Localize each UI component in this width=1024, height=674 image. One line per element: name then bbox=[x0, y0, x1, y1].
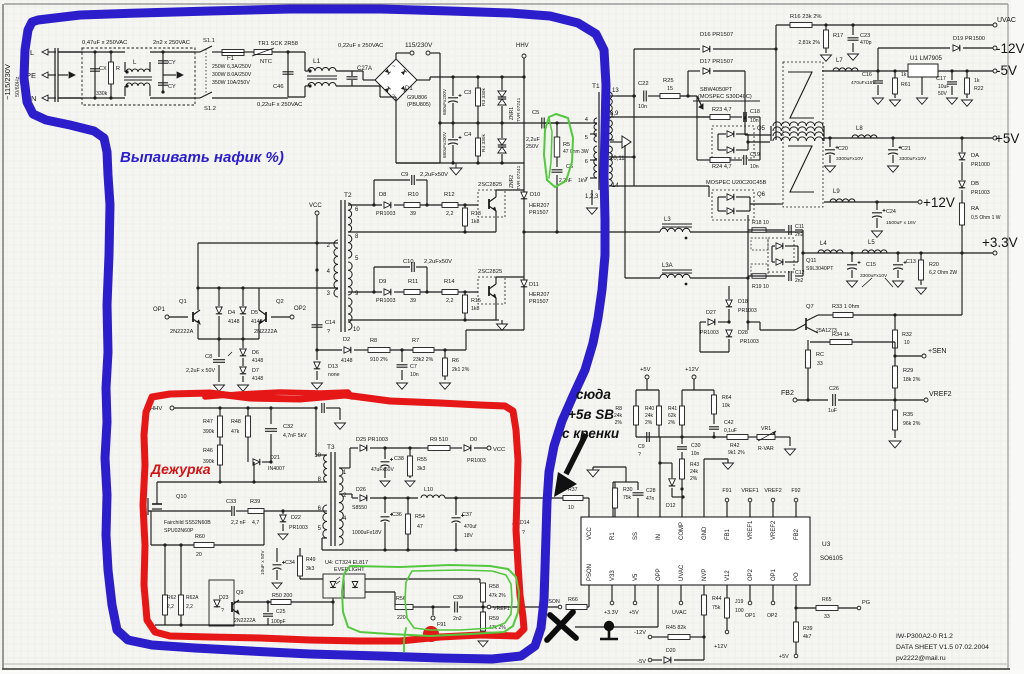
svg-text:R47: R47 bbox=[203, 419, 213, 425]
svg-text:D27: D27 bbox=[706, 310, 716, 316]
svg-text:100: 100 bbox=[735, 608, 744, 614]
svg-text:R49: R49 bbox=[306, 557, 316, 563]
svg-text:680uFx200V: 680uFx200V bbox=[442, 131, 447, 158]
svg-text:D0: D0 bbox=[470, 437, 477, 443]
svg-text:UVAC: UVAC bbox=[672, 610, 687, 616]
svg-text:20: 20 bbox=[196, 552, 202, 558]
svg-text:R10: R10 bbox=[408, 192, 419, 198]
svg-text:+12V: +12V bbox=[714, 644, 727, 650]
svg-text:Q5: Q5 bbox=[757, 126, 766, 132]
svg-text:R13: R13 bbox=[471, 211, 481, 217]
svg-text:OP2: OP2 bbox=[767, 613, 777, 619]
svg-text:C24: C24 bbox=[886, 209, 896, 215]
svg-text:6: 6 bbox=[585, 159, 588, 165]
svg-text:D6: D6 bbox=[252, 350, 259, 356]
svg-text:2SC2825: 2SC2825 bbox=[478, 269, 502, 275]
svg-text:75k: 75k bbox=[623, 495, 632, 501]
svg-text:L10: L10 bbox=[424, 487, 433, 493]
svg-text:0,5 Ohm 1 W: 0,5 Ohm 1 W bbox=[971, 215, 1001, 221]
svg-text:R5: R5 bbox=[563, 142, 570, 148]
svg-text:+3.3V: +3.3V bbox=[604, 610, 619, 616]
svg-text:D12: D12 bbox=[666, 503, 676, 509]
svg-text:D21: D21 bbox=[270, 455, 280, 461]
svg-text:R42: R42 bbox=[730, 443, 740, 449]
svg-text:F91: F91 bbox=[437, 622, 446, 628]
svg-text:FB2: FB2 bbox=[781, 390, 794, 397]
svg-text:D23: D23 bbox=[219, 595, 229, 601]
svg-text:D9: D9 bbox=[379, 279, 386, 285]
svg-text:RA: RA bbox=[971, 206, 979, 212]
svg-text:1k: 1k bbox=[974, 78, 980, 84]
svg-text:R44: R44 bbox=[712, 596, 722, 602]
svg-text:C9: C9 bbox=[638, 444, 645, 450]
svg-text:+5V: +5V bbox=[779, 654, 789, 660]
svg-text:910 2%: 910 2% bbox=[370, 357, 388, 363]
svg-text:4148: 4148 bbox=[228, 319, 240, 325]
svg-text:U1 LM7905: U1 LM7905 bbox=[910, 55, 943, 62]
svg-text:HHV: HHV bbox=[516, 43, 529, 49]
svg-text:250W 6,3A/250V: 250W 6,3A/250V bbox=[212, 64, 252, 70]
svg-text:L9: L9 bbox=[833, 189, 840, 195]
svg-text:R41: R41 bbox=[668, 406, 677, 412]
svg-text:T2: T2 bbox=[344, 192, 352, 199]
svg-text:D4: D4 bbox=[228, 310, 235, 316]
svg-text:330k: 330k bbox=[96, 91, 108, 97]
svg-text:C14: C14 bbox=[325, 320, 335, 326]
svg-text:D19 PR1500: D19 PR1500 bbox=[953, 36, 985, 42]
svg-text:R9 510: R9 510 bbox=[430, 437, 448, 443]
svg-text:Q9: Q9 bbox=[236, 590, 243, 596]
svg-text:10n: 10n bbox=[638, 104, 647, 110]
svg-text:10uF x 50V: 10uF x 50V bbox=[260, 550, 266, 575]
svg-text:R60: R60 bbox=[195, 534, 205, 540]
svg-text:2,2uF x 50V: 2,2uF x 50V bbox=[186, 368, 215, 374]
svg-text:13: 13 bbox=[612, 88, 619, 94]
svg-text:R3 330k: R3 330k bbox=[481, 88, 487, 106]
svg-text:V33: V33 bbox=[610, 570, 616, 581]
svg-text:+5V: +5V bbox=[640, 367, 651, 373]
svg-text:R16 23k 2%: R16 23k 2% bbox=[790, 14, 822, 20]
svg-text:?: ? bbox=[327, 329, 330, 335]
svg-text:0,22uF x 250VAC: 0,22uF x 250VAC bbox=[338, 43, 383, 49]
svg-text:R29: R29 bbox=[903, 368, 913, 374]
svg-text:10n: 10n bbox=[750, 164, 759, 170]
svg-text:S1.1: S1.1 bbox=[203, 38, 215, 44]
svg-text:PO: PO bbox=[794, 572, 800, 581]
svg-text:2,2uFx50V: 2,2uFx50V bbox=[424, 259, 452, 265]
svg-text:none: none bbox=[328, 372, 340, 378]
svg-text:U4: CT324 EL817: U4: CT324 EL817 bbox=[325, 560, 368, 566]
svg-text:SBW4050PT: SBW4050PT bbox=[700, 87, 733, 93]
svg-text:C18: C18 bbox=[750, 109, 760, 115]
svg-text:VREF2: VREF2 bbox=[771, 520, 777, 540]
svg-text:SPU02N60P: SPU02N60P bbox=[164, 528, 194, 534]
svg-text:33: 33 bbox=[817, 361, 823, 367]
svg-text:PR1003: PR1003 bbox=[467, 458, 486, 464]
svg-text:DA: DA bbox=[971, 153, 979, 159]
svg-text:L8: L8 bbox=[856, 126, 863, 132]
svg-text:F91: F91 bbox=[722, 488, 731, 494]
svg-text:R25: R25 bbox=[663, 78, 674, 84]
svg-text:C16: C16 bbox=[862, 72, 872, 78]
svg-text:CX: CX bbox=[99, 66, 107, 72]
svg-text:24k: 24k bbox=[645, 413, 654, 419]
svg-text:R8: R8 bbox=[370, 338, 377, 344]
svg-text:R6: R6 bbox=[452, 358, 459, 364]
svg-text:4,7: 4,7 bbox=[252, 520, 259, 526]
svg-text:R32: R32 bbox=[902, 332, 912, 338]
svg-text:D16 PR1507: D16 PR1507 bbox=[700, 32, 733, 38]
svg-text:U3: U3 bbox=[822, 541, 831, 548]
svg-text:(PBU805): (PBU805) bbox=[407, 102, 431, 108]
svg-text:2%: 2% bbox=[645, 420, 653, 426]
svg-text:NTC: NTC bbox=[260, 59, 272, 65]
svg-text:R1: R1 bbox=[610, 532, 616, 540]
svg-text:VCC: VCC bbox=[493, 447, 505, 453]
svg-text:C23: C23 bbox=[860, 33, 870, 39]
svg-text:S9L3040PT: S9L3040PT bbox=[806, 266, 834, 272]
svg-text:75k: 75k bbox=[712, 605, 721, 611]
svg-text:1500uF x 16V: 1500uF x 16V bbox=[886, 220, 917, 226]
svg-text:2,2: 2,2 bbox=[446, 211, 454, 217]
svg-text:2%: 2% bbox=[668, 420, 676, 426]
svg-text:R65: R65 bbox=[822, 597, 832, 603]
svg-text:+SEN: +SEN bbox=[928, 348, 946, 355]
svg-text:470uf: 470uf bbox=[464, 524, 477, 530]
svg-text:23k2 2%: 23k2 2% bbox=[413, 357, 434, 363]
svg-text:C33: C33 bbox=[226, 499, 236, 505]
svg-text:R39: R39 bbox=[250, 499, 260, 505]
svg-text:6,2 Ohm 2W: 6,2 Ohm 2W bbox=[929, 270, 957, 276]
svg-text:?: ? bbox=[221, 608, 224, 614]
svg-text:C30: C30 bbox=[691, 443, 701, 449]
svg-text:OP2: OP2 bbox=[294, 306, 307, 312]
svg-text:R40: R40 bbox=[645, 406, 654, 412]
svg-text:Выпаивать нафик %): Выпаивать нафик %) bbox=[120, 149, 284, 166]
svg-text:L3: L3 bbox=[664, 217, 671, 223]
svg-text:C4: C4 bbox=[464, 132, 472, 138]
svg-text:F1: F1 bbox=[227, 56, 235, 62]
svg-text:24k: 24k bbox=[614, 413, 623, 419]
svg-text:0,47uF x 250VAC: 0,47uF x 250VAC bbox=[82, 40, 127, 46]
svg-text:D11: D11 bbox=[529, 282, 539, 288]
svg-text:100pF: 100pF bbox=[271, 619, 286, 625]
svg-text:C39: C39 bbox=[453, 595, 463, 601]
svg-text:+5V: +5V bbox=[995, 131, 1019, 146]
svg-text:1k8: 1k8 bbox=[471, 306, 479, 312]
svg-text:2,2: 2,2 bbox=[167, 604, 174, 610]
svg-text:PR1003: PR1003 bbox=[376, 298, 395, 304]
svg-text:D10: D10 bbox=[530, 192, 540, 198]
svg-text:(MOSPEC S30D40C): (MOSPEC S30D40C) bbox=[698, 94, 752, 100]
svg-text:R48: R48 bbox=[231, 419, 241, 425]
svg-text:R62A: R62A bbox=[186, 595, 199, 601]
svg-text:FB1: FB1 bbox=[725, 528, 731, 540]
svg-text:2,2: 2,2 bbox=[446, 298, 454, 304]
svg-text:R12: R12 bbox=[444, 192, 455, 198]
svg-text:~: ~ bbox=[392, 93, 396, 99]
svg-text:L5: L5 bbox=[868, 240, 875, 246]
svg-text:96k 2%: 96k 2% bbox=[903, 421, 921, 427]
svg-text:TVR 07241: TVR 07241 bbox=[516, 97, 522, 122]
svg-text:R46: R46 bbox=[203, 448, 213, 454]
svg-text:10n: 10n bbox=[410, 372, 419, 378]
svg-text:G9U806: G9U806 bbox=[407, 95, 427, 101]
svg-text:L1: L1 bbox=[313, 58, 321, 65]
svg-text:D18: D18 bbox=[738, 299, 748, 305]
svg-text:R4 330k: R4 330k bbox=[481, 134, 487, 152]
svg-text:47k 2%: 47k 2% bbox=[489, 593, 506, 599]
svg-text:R11: R11 bbox=[408, 279, 418, 285]
svg-text:10: 10 bbox=[353, 327, 360, 333]
svg-text:C28: C28 bbox=[646, 488, 656, 494]
svg-text:C26: C26 bbox=[829, 386, 839, 392]
svg-text:HER207: HER207 bbox=[529, 292, 549, 298]
svg-text:?: ? bbox=[638, 452, 641, 458]
svg-text:OP1: OP1 bbox=[771, 568, 777, 581]
svg-text:4,7nF 5kV: 4,7nF 5kV bbox=[283, 433, 307, 439]
svg-text:24k: 24k bbox=[690, 469, 699, 475]
svg-text:R61: R61 bbox=[901, 82, 911, 88]
svg-text:FB2: FB2 bbox=[794, 528, 800, 540]
svg-text:PG: PG bbox=[862, 600, 870, 606]
svg-text:+12V: +12V bbox=[685, 367, 699, 373]
svg-text:PR1003: PR1003 bbox=[740, 339, 759, 345]
svg-text:C21: C21 bbox=[901, 146, 911, 152]
svg-text:1000uFx18V: 1000uFx18V bbox=[352, 530, 382, 536]
svg-text:D25 PR1003: D25 PR1003 bbox=[356, 437, 388, 443]
svg-text:2n2: 2n2 bbox=[795, 278, 804, 284]
svg-text:C17: C17 bbox=[936, 76, 946, 82]
svg-text:T1: T1 bbox=[592, 83, 600, 90]
svg-text:V12: V12 bbox=[725, 570, 731, 581]
svg-text:D2: D2 bbox=[343, 337, 350, 343]
svg-text:C9: C9 bbox=[401, 172, 408, 178]
svg-text:2n2: 2n2 bbox=[795, 232, 804, 238]
svg-text:39: 39 bbox=[410, 298, 416, 304]
svg-text:R22: R22 bbox=[974, 86, 984, 92]
svg-text:C32: C32 bbox=[283, 424, 293, 430]
svg-text:L4: L4 bbox=[820, 241, 827, 247]
svg-text:D17 PR1507: D17 PR1507 bbox=[700, 59, 733, 65]
svg-text:5: 5 bbox=[585, 135, 588, 141]
svg-text:2n2 x 250VAC: 2n2 x 250VAC bbox=[153, 40, 190, 46]
svg-text:S8550: S8550 bbox=[352, 505, 367, 511]
svg-text:SS: SS bbox=[633, 532, 639, 540]
svg-text:R15: R15 bbox=[471, 298, 481, 304]
svg-text:D8: D8 bbox=[379, 192, 386, 198]
svg-text:R59: R59 bbox=[489, 616, 499, 622]
svg-text:C8: C8 bbox=[205, 354, 212, 360]
svg-text:OPP: OPP bbox=[656, 568, 662, 581]
svg-text:R19 10: R19 10 bbox=[752, 284, 769, 290]
svg-text:2,81k 2%: 2,81k 2% bbox=[798, 40, 820, 46]
svg-text:V5: V5 bbox=[633, 573, 639, 581]
svg-text:~115/230V: ~115/230V bbox=[3, 64, 12, 100]
svg-text:HER207: HER207 bbox=[529, 203, 549, 209]
svg-text:C22: C22 bbox=[638, 81, 649, 87]
svg-text:R24 4,7: R24 4,7 bbox=[712, 164, 732, 170]
svg-text:300W 8.0A/250V: 300W 8.0A/250V bbox=[212, 72, 252, 78]
svg-text:R62: R62 bbox=[167, 595, 176, 601]
svg-text:2,2uF: 2,2uF bbox=[526, 137, 540, 143]
svg-text:C15: C15 bbox=[866, 262, 876, 268]
svg-text:47uFx50V: 47uFx50V bbox=[371, 467, 394, 473]
svg-text:C25: C25 bbox=[276, 609, 286, 615]
svg-text:D28: D28 bbox=[738, 330, 748, 336]
svg-text:TVR 07241: TVR 07241 bbox=[516, 165, 522, 190]
svg-text:PR1003: PR1003 bbox=[376, 211, 395, 217]
svg-text:C5: C5 bbox=[532, 110, 539, 116]
svg-text:PR1003: PR1003 bbox=[700, 330, 719, 336]
svg-text:10n: 10n bbox=[750, 118, 759, 124]
svg-text:Q2: Q2 bbox=[276, 299, 284, 305]
svg-text:OP2: OP2 bbox=[748, 568, 754, 581]
svg-text:R55: R55 bbox=[417, 457, 427, 463]
svg-text:10uF: 10uF bbox=[938, 84, 949, 90]
svg-text:3300uFx10V: 3300uFx10V bbox=[836, 156, 864, 162]
svg-text:PR1507: PR1507 bbox=[529, 210, 548, 216]
svg-text:UVAC: UVAC bbox=[679, 564, 685, 581]
svg-text:C3: C3 bbox=[464, 90, 471, 96]
svg-text:2k1 2%: 2k1 2% bbox=[452, 367, 470, 373]
svg-text:2,2: 2,2 bbox=[186, 604, 193, 610]
svg-text:C46: C46 bbox=[273, 84, 284, 90]
svg-text:2N2222A: 2N2222A bbox=[170, 329, 194, 335]
svg-text:+12V: +12V bbox=[923, 195, 955, 210]
svg-text:C37: C37 bbox=[462, 512, 472, 518]
svg-text:D22: D22 bbox=[291, 515, 301, 521]
svg-text:10: 10 bbox=[904, 340, 910, 346]
svg-text:F92: F92 bbox=[791, 488, 800, 494]
svg-text:10: 10 bbox=[314, 453, 321, 459]
svg-text:D13: D13 bbox=[328, 364, 338, 370]
svg-text:+5V: +5V bbox=[629, 610, 639, 616]
svg-text:Q1: Q1 bbox=[179, 299, 187, 305]
svg-text:R23 4,7: R23 4,7 bbox=[712, 107, 732, 113]
svg-text:8,9: 8,9 bbox=[610, 111, 619, 117]
svg-text:NVP: NVP bbox=[702, 569, 708, 581]
svg-text:с кренки: с кренки bbox=[562, 426, 620, 441]
svg-text:2,2 nF: 2,2 nF bbox=[231, 520, 246, 526]
svg-text:R66: R66 bbox=[568, 597, 578, 603]
svg-text:Q10: Q10 bbox=[176, 494, 187, 500]
svg-text:2n2: 2n2 bbox=[453, 616, 462, 622]
svg-text:R18 10: R18 10 bbox=[752, 220, 769, 226]
svg-text:D26: D26 bbox=[356, 487, 366, 493]
svg-text:R: R bbox=[116, 66, 120, 72]
svg-text:SO6105: SO6105 bbox=[820, 555, 843, 562]
svg-text:D14: D14 bbox=[520, 520, 530, 526]
svg-text:2N2222A: 2N2222A bbox=[254, 329, 278, 335]
svg-text:C36: C36 bbox=[392, 512, 402, 518]
svg-text:OP1: OP1 bbox=[745, 613, 755, 619]
svg-text:T3: T3 bbox=[327, 444, 335, 451]
svg-text:C42: C42 bbox=[724, 420, 734, 426]
svg-text:~: ~ bbox=[392, 64, 396, 70]
svg-text:D5: D5 bbox=[251, 310, 258, 316]
svg-text:10n: 10n bbox=[691, 451, 700, 457]
svg-text:4148: 4148 bbox=[252, 358, 263, 364]
svg-text:R-VAR: R-VAR bbox=[758, 446, 774, 452]
svg-text:0,1uF: 0,1uF bbox=[724, 428, 737, 434]
svg-text:R8: R8 bbox=[615, 406, 622, 412]
svg-text:C20: C20 bbox=[838, 146, 848, 152]
svg-text:C34: C34 bbox=[285, 560, 295, 566]
svg-text:47k: 47k bbox=[231, 429, 240, 435]
svg-text:Q7: Q7 bbox=[806, 304, 814, 310]
svg-text:L3A: L3A bbox=[662, 263, 673, 269]
svg-text:220: 220 bbox=[397, 615, 406, 621]
svg-text:D20: D20 bbox=[666, 648, 676, 654]
svg-text:47 0hm 3W: 47 0hm 3W bbox=[563, 149, 589, 155]
svg-text:680uFx200V: 680uFx200V bbox=[442, 88, 447, 115]
svg-text:-5V: -5V bbox=[637, 659, 646, 665]
svg-text:D7: D7 bbox=[252, 368, 259, 374]
svg-text:COMP: COMP bbox=[679, 522, 685, 540]
svg-text:VR1: VR1 bbox=[761, 426, 771, 432]
svg-text:C19: C19 bbox=[750, 152, 760, 158]
svg-text:IW-P300A2-0 R1.2: IW-P300A2-0 R1.2 bbox=[896, 633, 953, 640]
svg-text:Q11: Q11 bbox=[806, 258, 817, 264]
svg-text:IN: IN bbox=[656, 534, 662, 540]
svg-text:250V: 250V bbox=[526, 144, 539, 150]
svg-text:4148: 4148 bbox=[251, 319, 263, 325]
svg-text:DB: DB bbox=[971, 181, 979, 187]
svg-text:R54: R54 bbox=[415, 514, 425, 520]
svg-text:18V: 18V bbox=[464, 533, 474, 539]
svg-text:50V: 50V bbox=[938, 91, 948, 97]
svg-text:RC: RC bbox=[816, 352, 824, 358]
svg-text:Дежурка: Дежурка bbox=[150, 461, 211, 477]
svg-text:9k1 2%: 9k1 2% bbox=[728, 450, 745, 456]
svg-text:7: 7 bbox=[585, 177, 588, 183]
svg-text:3300uFx10V: 3300uFx10V bbox=[899, 156, 927, 162]
svg-text:HHV: HHV bbox=[150, 406, 162, 412]
svg-text:10: 10 bbox=[568, 505, 574, 511]
svg-text:pv2222@mail.ru: pv2222@mail.ru bbox=[896, 655, 946, 662]
svg-text:PR1507: PR1507 bbox=[529, 299, 548, 305]
svg-text:1k8: 1k8 bbox=[471, 219, 479, 225]
svg-text:3300uFx10V: 3300uFx10V bbox=[860, 273, 888, 279]
svg-text:C38: C38 bbox=[394, 456, 404, 462]
svg-text:2%: 2% bbox=[690, 476, 698, 482]
svg-text:2,2uFx50V: 2,2uFx50V bbox=[420, 172, 448, 178]
svg-text:-5V: -5V bbox=[996, 63, 1017, 78]
svg-text:R7: R7 bbox=[412, 338, 419, 344]
svg-text:L7: L7 bbox=[836, 58, 843, 64]
svg-text:VREF2: VREF2 bbox=[929, 391, 952, 398]
svg-text:UVAC: UVAC bbox=[997, 17, 1016, 24]
svg-text:18k 2%: 18k 2% bbox=[903, 377, 921, 383]
svg-text:DATA SHEET V1.5 07.02.2004: DATA SHEET V1.5 07.02.2004 bbox=[896, 644, 989, 651]
svg-text:VCC: VCC bbox=[587, 527, 593, 540]
svg-text:GND: GND bbox=[702, 526, 708, 540]
svg-text:R50 200: R50 200 bbox=[272, 593, 292, 599]
svg-text:Fairchild SS52N60B: Fairchild SS52N60B bbox=[164, 520, 211, 526]
svg-text:R20: R20 bbox=[929, 262, 939, 268]
svg-text:470p: 470p bbox=[860, 40, 872, 46]
svg-text:сюда: сюда bbox=[576, 387, 611, 402]
svg-text:R43: R43 bbox=[690, 462, 699, 468]
svg-text:R33 1 0hm: R33 1 0hm bbox=[832, 304, 860, 310]
svg-text:VREF1: VREF1 bbox=[741, 488, 758, 494]
svg-text:OP1: OP1 bbox=[153, 307, 166, 313]
svg-text:33: 33 bbox=[824, 614, 830, 620]
svg-text:47n: 47n bbox=[646, 496, 655, 502]
svg-text:15: 15 bbox=[667, 86, 673, 92]
svg-text:C11: C11 bbox=[795, 224, 804, 230]
